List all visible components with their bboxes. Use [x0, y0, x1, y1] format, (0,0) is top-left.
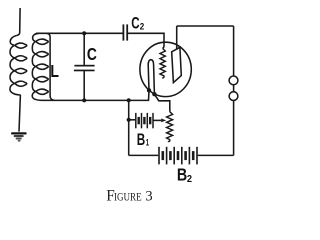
battery B1 (filament battery) [135, 113, 137, 128]
filament junction node left [147, 88, 151, 92]
svg-text:3: 3 [145, 188, 152, 204]
wire: filament to rheostat [154, 94, 169, 112]
right riser wire upper [233, 26, 235, 76]
wire: C2 to grid [128, 33, 164, 48]
capacitor C plates [74, 65, 94, 67]
capacitor C top lead [83, 33, 85, 65]
ground (earth) symbol [11, 132, 27, 134]
svg-text:1: 1 [146, 137, 150, 148]
plate lead [176, 26, 178, 50]
svg-text:IGURE: IGURE [114, 189, 142, 203]
circuit schematic: regenerative vacuum-tube receiver, Figure 3 [0, 0, 250, 208]
antenna coupling coil (primary) [10, 36, 27, 95]
junction node at C bottom [82, 98, 86, 102]
phone terminal upper [229, 76, 238, 85]
filament rheostat (variable resistor) [167, 112, 173, 142]
junction node battery branch [127, 98, 131, 102]
wire: coil top to C2 [36, 32, 123, 34]
ground lead wire [19, 95, 20, 132]
wire between phone terminals [233, 85, 235, 92]
phone terminal lower [229, 92, 238, 101]
svg-text:C: C [131, 14, 139, 33]
capacitor C bottom lead [83, 71, 85, 100]
svg-text:B: B [177, 166, 187, 185]
svg-text:2: 2 [140, 21, 145, 32]
svg-text:C: C [87, 46, 97, 65]
coil L right-side return wire (rail) [47, 33, 55, 100]
tube plate (anode) [172, 47, 182, 82]
tube filament hairpin [148, 60, 154, 94]
battery B2 (plate battery) [158, 147, 160, 165]
antenna lead-in wire [16, 8, 20, 36]
bottom tank wire [44, 90, 149, 100]
tube grid (zigzag) [160, 48, 165, 77]
svg-text:L: L [50, 61, 59, 81]
filament junction node right [152, 92, 156, 96]
wire: B2 to right riser [198, 154, 234, 156]
junction node at B1 [127, 118, 131, 122]
wire: branch down to batteries [128, 100, 130, 155]
tuning coil L (secondary) : loop chain [32, 33, 48, 100]
junction node at C top [82, 31, 86, 35]
svg-text:B: B [137, 131, 145, 149]
capacitor C2 plates [123, 24, 125, 40]
vacuum tube envelope U1 [140, 42, 191, 96]
wire: node to B1 [129, 119, 136, 122]
top wire: plate to riser [177, 25, 234, 27]
rheostat arrow from B1 [154, 119, 162, 121]
bottom wire to B2 [129, 154, 159, 156]
svg-text:2: 2 [187, 174, 193, 186]
right riser wire lower [233, 101, 235, 156]
